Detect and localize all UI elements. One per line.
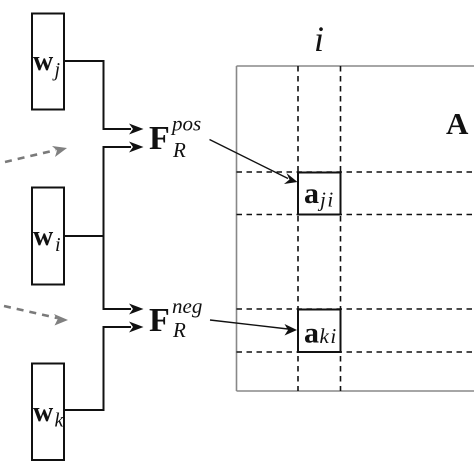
svg-text:w: w [33, 46, 54, 77]
svg-text:ki: ki [320, 324, 338, 348]
svg-text:pos: pos [170, 112, 201, 136]
svg-text:w: w [33, 221, 54, 252]
svg-text:R: R [172, 138, 186, 162]
svg-text:neg: neg [172, 294, 202, 318]
svg-text:i: i [314, 19, 324, 59]
svg-text:F: F [149, 120, 170, 157]
svg-text:ji: ji [317, 188, 335, 212]
svg-text:w: w [33, 397, 54, 428]
svg-text:a: a [304, 177, 319, 210]
svg-text:i: i [55, 234, 61, 256]
svg-text:a: a [304, 317, 319, 350]
svg-text:k: k [55, 410, 65, 432]
svg-text:R: R [172, 318, 186, 342]
svg-text:A: A [446, 106, 469, 141]
svg-text:F: F [149, 302, 170, 339]
